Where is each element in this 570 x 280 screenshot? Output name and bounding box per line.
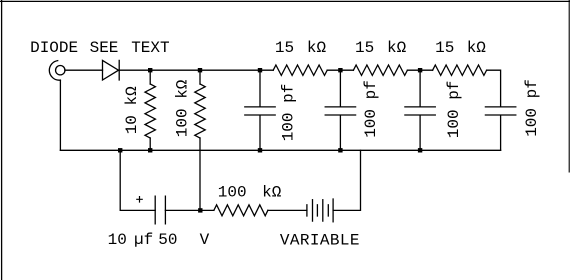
svg-text:50: 50 xyxy=(158,231,177,249)
svg-text:VARIABLE: VARIABLE xyxy=(280,232,360,250)
svg-text:kΩ: kΩ xyxy=(387,39,407,57)
svg-text:kΩ: kΩ xyxy=(467,39,487,57)
svg-text:V: V xyxy=(200,231,210,249)
svg-text:10: 10 xyxy=(108,231,127,249)
svg-text:DIODE: DIODE xyxy=(30,39,78,57)
svg-text:kΩ: kΩ xyxy=(307,39,327,57)
svg-text:100 pf: 100 pf xyxy=(523,79,541,137)
svg-text:10 kΩ: 10 kΩ xyxy=(123,86,141,134)
svg-text:100 pf: 100 pf xyxy=(279,84,297,142)
svg-text:100 pf: 100 pf xyxy=(445,81,463,139)
svg-text:µf: µf xyxy=(134,231,153,249)
svg-text:100: 100 xyxy=(218,183,247,201)
svg-text:15: 15 xyxy=(435,39,454,57)
svg-text:100 pf: 100 pf xyxy=(362,80,380,138)
svg-text:SEE: SEE xyxy=(90,39,119,57)
svg-text:15: 15 xyxy=(275,39,294,57)
svg-text:TEXT: TEXT xyxy=(131,39,169,57)
svg-text:100 kΩ: 100 kΩ xyxy=(173,79,191,137)
svg-text:15: 15 xyxy=(355,39,374,57)
svg-text:kΩ: kΩ xyxy=(262,183,282,201)
